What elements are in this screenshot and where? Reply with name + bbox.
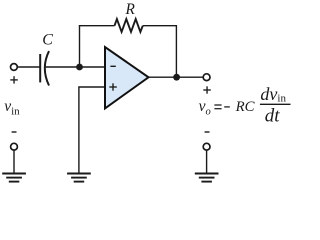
bottom-right terminal circle: [203, 143, 210, 150]
output terminal circle: [203, 74, 210, 81]
polarity - at bottom-right terminal: [205, 131, 210, 133]
equation fraction bar: [260, 103, 291, 105]
svg-text:vin: vin: [4, 98, 20, 118]
svg-text:dt: dt: [265, 105, 281, 126]
node junction dot at inverting input: [76, 64, 83, 71]
svg-text:RC: RC: [235, 99, 255, 115]
wire feedback right vertical: [175, 25, 177, 77]
bottom-left terminal circle: [11, 143, 18, 150]
svg-text:vo: vo: [199, 98, 211, 118]
svg-text:dvin: dvin: [260, 84, 286, 104]
svg-text:R: R: [125, 1, 136, 18]
capacitor C left plate: [39, 54, 41, 82]
resistor R: [115, 19, 143, 32]
wire op-amp output to terminal: [149, 76, 204, 78]
equation minus sign: [224, 106, 230, 108]
wire bottom-left terminal to ground: [13, 150, 15, 173]
polarity - at bottom-left terminal: [12, 131, 17, 133]
wire noninverting input to ground: [79, 87, 104, 173]
ground right: [195, 174, 219, 182]
polarity + at output terminal: [203, 86, 211, 93]
node junction dot at output: [173, 74, 180, 81]
wire top left to resistor: [79, 25, 115, 27]
equation equals sign: [214, 105, 221, 109]
ground left: [2, 174, 26, 182]
svg-text:C: C: [42, 32, 53, 49]
polarity + at input terminal: [10, 76, 17, 83]
op-amp U1 triangle: [105, 47, 149, 108]
op-amp minus input mark: [110, 65, 115, 67]
wire input terminal to capacitor: [17, 66, 40, 68]
capacitor C right curved plate: [45, 51, 49, 85]
wire bottom-right terminal to ground: [206, 150, 208, 173]
wire resistor to top right corner: [143, 25, 177, 27]
wire capacitor to op-amp inverting input: [45, 66, 104, 68]
op-amp plus input mark: [109, 83, 117, 90]
equation v_o = -RC dv_in/dt: [199, 84, 287, 126]
wire feedback left vertical: [79, 26, 81, 67]
ground middle: [67, 174, 91, 182]
input terminal circle: [11, 64, 18, 71]
